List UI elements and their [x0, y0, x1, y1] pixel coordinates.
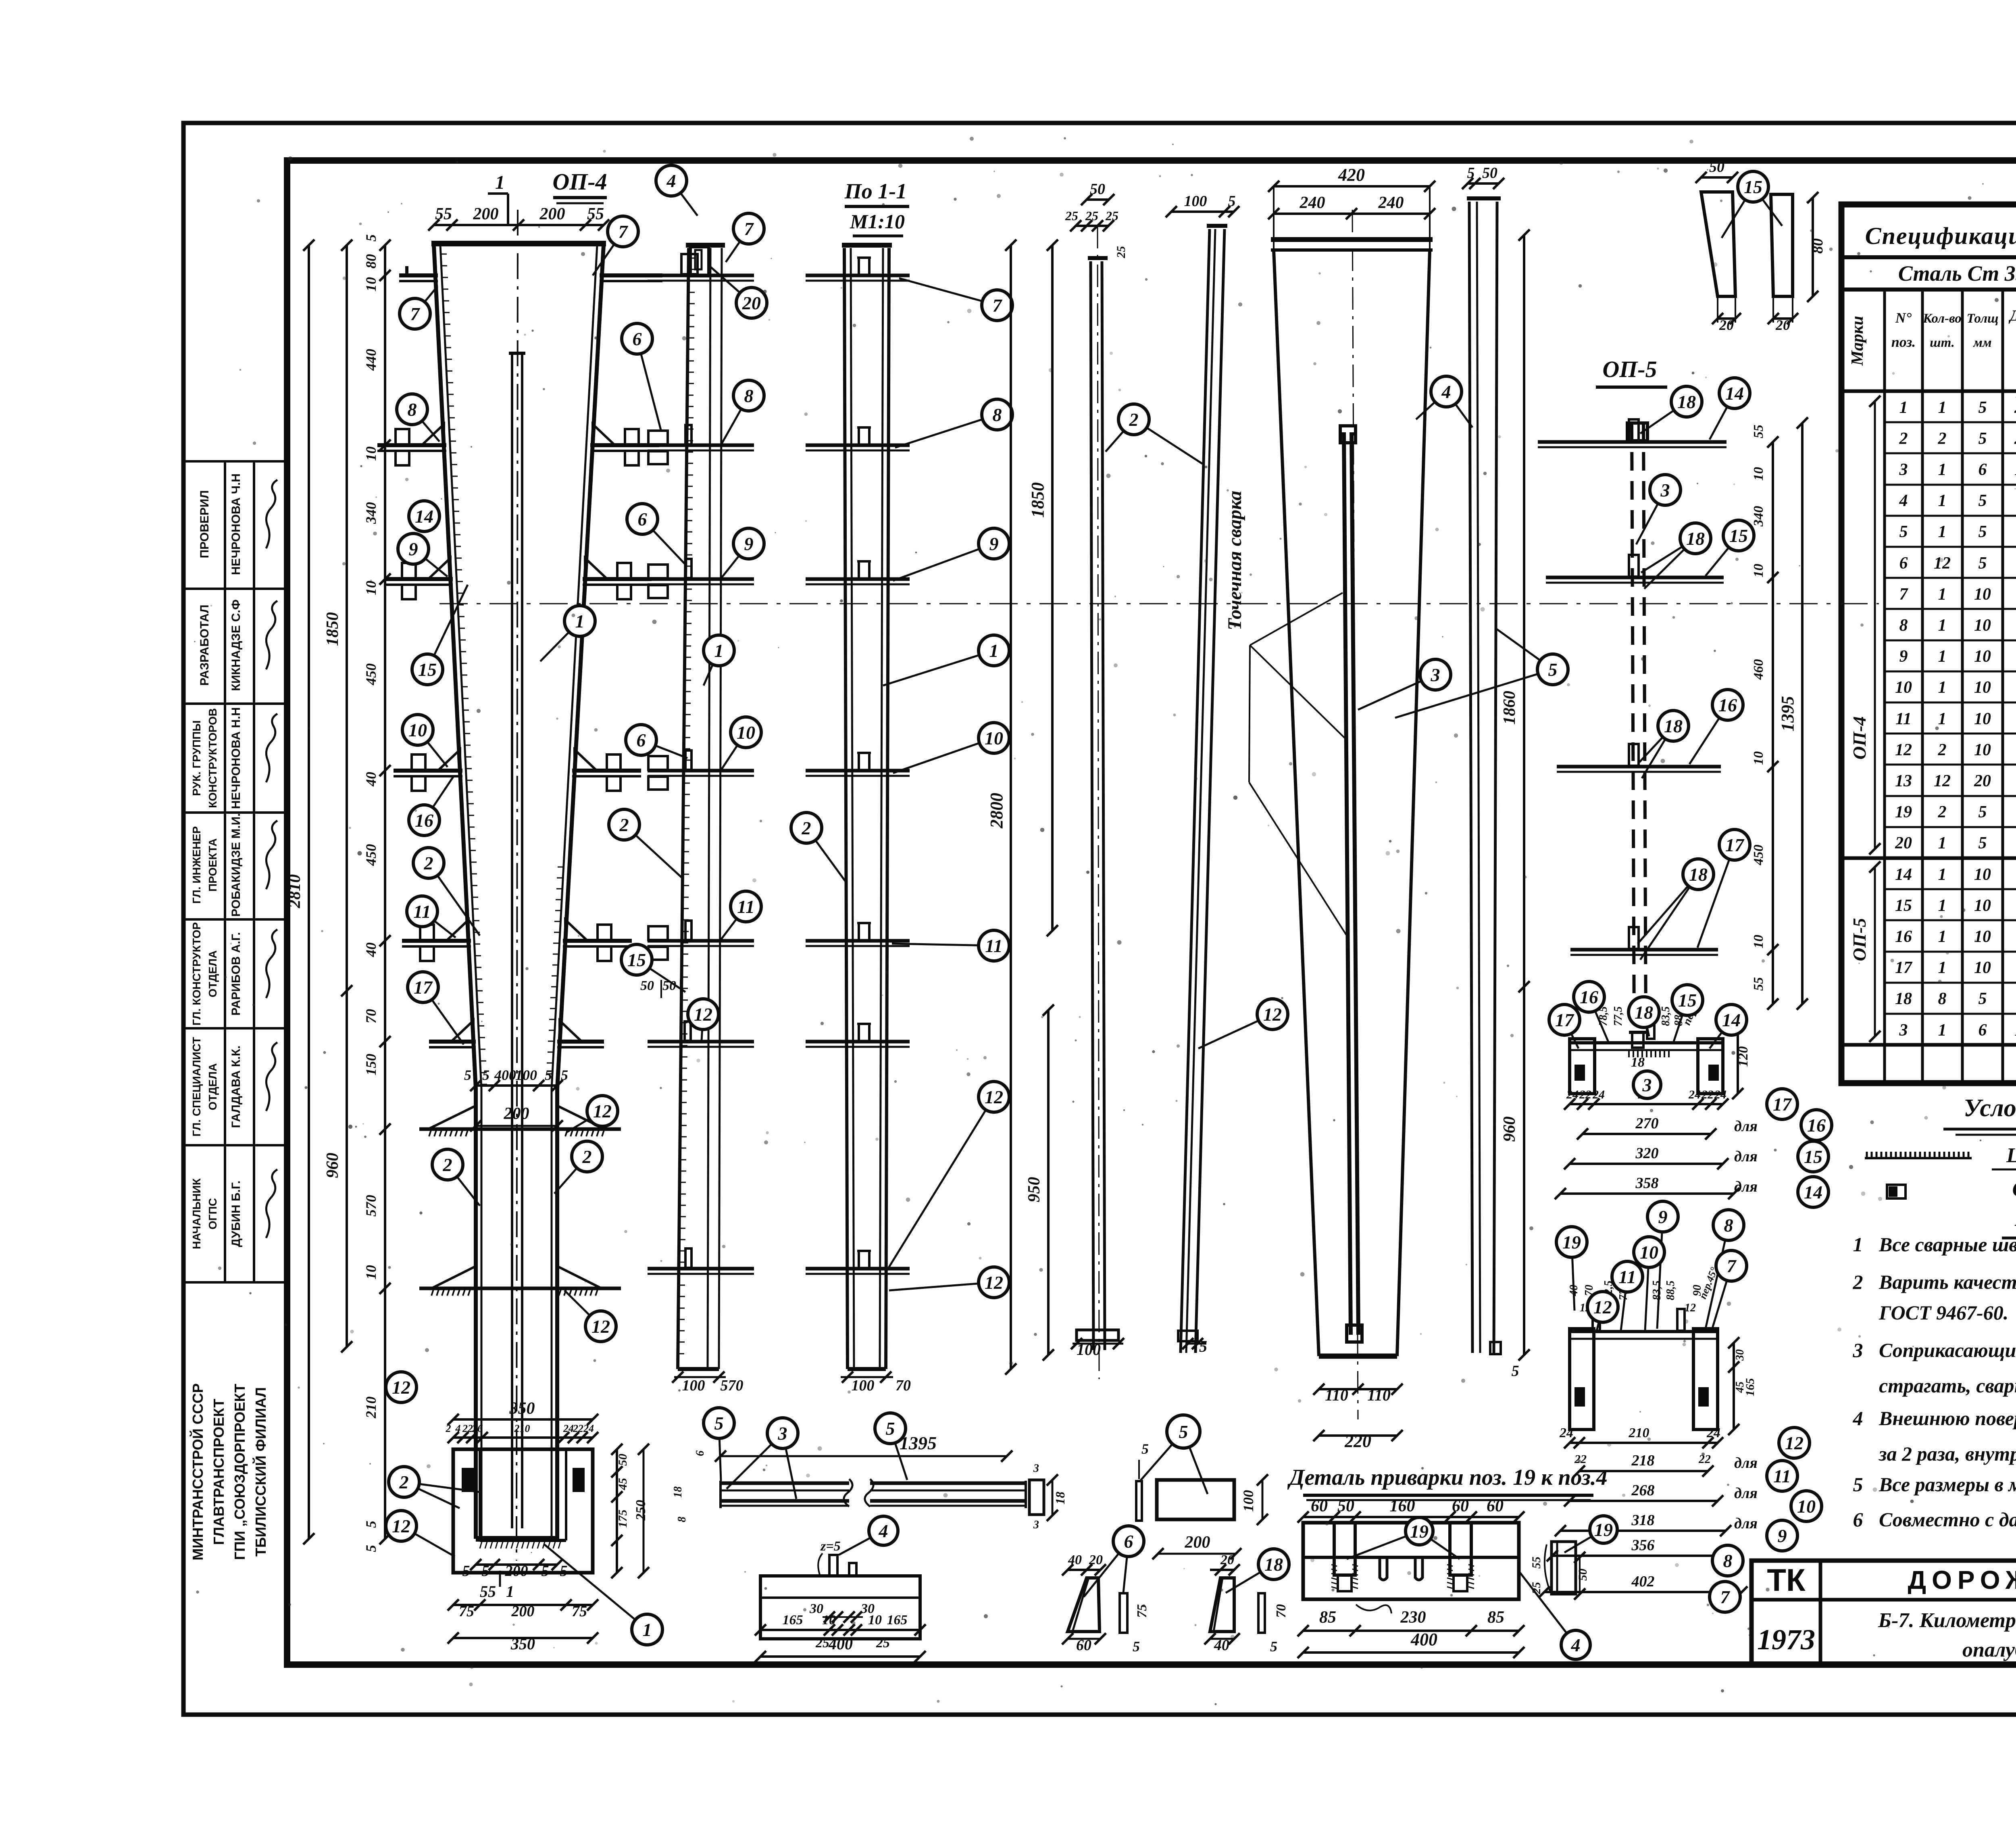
svg-text:15: 15 — [418, 659, 437, 680]
legend hole symbol — [1887, 1185, 1906, 1198]
svg-text:По 1-1: По 1-1 — [844, 179, 907, 203]
svg-text:55: 55 — [435, 205, 452, 223]
svg-text:ГЛ. СПЕЦИАЛИСТ: ГЛ. СПЕЦИАЛИСТ — [190, 1037, 203, 1137]
view C bar level 3 — [806, 577, 910, 581]
svg-text:10: 10 — [985, 728, 1003, 748]
svg-text:2: 2 — [446, 1423, 451, 1434]
node callout 18 — [1641, 523, 1711, 589]
svg-text:2821: 2821 — [2014, 398, 2016, 417]
view B bar level 15 — [648, 1040, 754, 1044]
view OP-5 dim 1395 — [1801, 423, 1804, 1004]
section S2 dim chains — [1570, 1442, 1718, 1444]
node callout 6 — [626, 725, 687, 758]
node callout 10 — [893, 723, 1009, 773]
svg-text:Кол-во: Кол-во — [1922, 311, 1962, 326]
spec table frame — [1841, 204, 2016, 1083]
node callout 4 — [839, 1516, 898, 1555]
svg-text:10: 10 — [1974, 647, 1991, 666]
svg-text:200: 200 — [504, 1105, 529, 1123]
svg-text:20: 20 — [1974, 772, 1991, 790]
svg-text:для: для — [1734, 1118, 1758, 1135]
svg-text:70: 70 — [896, 1377, 911, 1394]
node callout 14 — [1710, 378, 1750, 440]
svg-text:22: 22 — [462, 1423, 473, 1434]
svg-text:4: 4 — [879, 1521, 888, 1541]
svg-text:ОГПС: ОГПС — [206, 1198, 219, 1230]
svg-text:100: 100 — [682, 1377, 705, 1394]
weld detail bottom dims — [1303, 1630, 1519, 1632]
svg-text:120: 120 — [1736, 1046, 1751, 1067]
svg-text:358: 358 — [1635, 1175, 1659, 1192]
svg-text:Сталь Ст 3.: Сталь Ст 3. — [1898, 261, 2016, 286]
svg-text:10: 10 — [363, 581, 379, 595]
svg-text:960: 960 — [1500, 1117, 1519, 1142]
svg-text:165: 165 — [783, 1613, 803, 1628]
node callout 18 — [1639, 711, 1689, 778]
svg-text:поз.: поз. — [1891, 334, 1916, 350]
view F top dims — [1274, 185, 1430, 188]
svg-text:8: 8 — [1723, 1550, 1733, 1571]
svg-text:5: 5 — [545, 1067, 552, 1083]
svg-text:350: 350 — [510, 1635, 535, 1653]
svg-text:6: 6 — [637, 730, 646, 750]
bar end section plate 18x3 — [1029, 1480, 1044, 1515]
view C bar level 6 — [806, 1040, 910, 1044]
view B bar level 12 — [648, 1267, 754, 1271]
weld detail plate pos.19 right — [1450, 1523, 1471, 1575]
svg-text:60: 60 — [1311, 1497, 1328, 1515]
svg-text:22: 22 — [1701, 1088, 1714, 1101]
svg-text:6: 6 — [1899, 554, 1908, 573]
svg-text:Толщ: Толщ — [1966, 311, 1998, 326]
svg-text:5: 5 — [1979, 429, 1987, 448]
weld detail plate pos.19 left — [1334, 1523, 1355, 1575]
svg-text:11: 11 — [737, 896, 754, 917]
svg-text:15: 15 — [627, 950, 646, 970]
svg-text:18: 18 — [1053, 1492, 1067, 1505]
node callout 16 — [409, 776, 454, 836]
svg-text:9: 9 — [409, 539, 418, 559]
svg-text:12: 12 — [1685, 1302, 1696, 1314]
svg-text:10: 10 — [1751, 564, 1766, 577]
svg-text:КИКНАДЗЕ С.Ф: КИКНАДЗЕ С.Ф — [229, 599, 243, 691]
svg-text:450: 450 — [363, 844, 379, 866]
svg-text:18: 18 — [1689, 864, 1708, 885]
spec table title — [1841, 255, 2016, 259]
svg-text:420: 420 — [1338, 165, 1365, 185]
svg-text:165: 165 — [887, 1613, 908, 1628]
svg-text:200: 200 — [473, 205, 499, 223]
detail thin plate 5 — [1136, 1481, 1142, 1521]
svg-text:85: 85 — [1319, 1608, 1336, 1627]
view C bar level 1 — [806, 274, 910, 277]
svg-text:26: 26 — [472, 1423, 483, 1434]
svg-text:ОП-5: ОП-5 — [1602, 356, 1657, 382]
svg-text:20: 20 — [742, 293, 761, 313]
svg-text:ГАЛДАВА К.К.: ГАЛДАВА К.К. — [229, 1046, 243, 1128]
svg-text:18: 18 — [1264, 1554, 1283, 1575]
svg-text:для: для — [1734, 1148, 1758, 1165]
svg-text:3: 3 — [1899, 1021, 1908, 1040]
view B top cap pos.4 — [690, 247, 709, 276]
svg-text:77,5: 77,5 — [1612, 1007, 1624, 1026]
svg-text:5: 5 — [1979, 803, 1987, 821]
svg-text:шт.: шт. — [1930, 336, 1955, 350]
svg-text:8: 8 — [1724, 1215, 1733, 1236]
view B weld serration — [689, 258, 695, 259]
svg-text:14: 14 — [1722, 1010, 1741, 1030]
svg-text:1: 1 — [1938, 834, 1947, 852]
svg-text:1395: 1395 — [1778, 696, 1797, 731]
node callout 1 — [540, 606, 595, 661]
svg-text:12: 12 — [392, 1516, 410, 1536]
node callout 8 — [895, 399, 1012, 448]
spec table header grid — [1841, 390, 2016, 393]
svg-text:7: 7 — [1727, 1256, 1737, 1276]
svg-text:5: 5 — [1899, 523, 1908, 541]
svg-text:110: 110 — [1325, 1386, 1348, 1404]
svg-text:10: 10 — [737, 722, 755, 743]
svg-text:страгать, сварные швы зачисти: страгать, сварные швы зачистить. — [1879, 1374, 2016, 1397]
node callout 6 — [1084, 1526, 1144, 1597]
node callout 12 — [564, 1290, 616, 1342]
svg-text:75: 75 — [1135, 1604, 1150, 1618]
svg-text:11: 11 — [413, 901, 431, 922]
svg-text:24: 24 — [583, 1423, 594, 1434]
node callout 14 — [1710, 1004, 1747, 1048]
horizontal centre axis line — [439, 603, 1879, 604]
svg-text:30: 30 — [809, 1601, 823, 1616]
svg-text:9: 9 — [1778, 1525, 1787, 1546]
svg-text:16: 16 — [1807, 1115, 1826, 1136]
node callout 16 — [1574, 982, 1609, 1043]
view OP-4 left dim chain — [384, 245, 386, 1539]
detail thin bar 75 — [1120, 1593, 1127, 1633]
svg-text:3: 3 — [1033, 1519, 1039, 1531]
svg-text:55: 55 — [480, 1582, 496, 1601]
view F centre rod pos.3 — [1344, 432, 1351, 1335]
dim 950 — [1047, 1010, 1050, 1355]
node callout 12 — [566, 1096, 618, 1132]
svg-text:12: 12 — [593, 1101, 612, 1121]
svg-text:17: 17 — [1895, 959, 1913, 977]
svg-text:5: 5 — [1141, 1441, 1149, 1457]
view G foot — [1490, 1342, 1501, 1354]
node callout 12 — [1587, 1292, 1618, 1331]
svg-text:N°: N° — [1895, 310, 1912, 326]
svg-text:7: 7 — [619, 221, 629, 242]
svg-text:1850: 1850 — [323, 612, 342, 646]
svg-text:5: 5 — [1548, 659, 1558, 680]
svg-text:14: 14 — [1804, 1182, 1822, 1202]
weld detail slots — [1380, 1557, 1387, 1580]
dim line 2800 — [1010, 245, 1012, 1369]
svg-text:200: 200 — [1185, 1533, 1210, 1552]
svg-text:17: 17 — [1555, 1010, 1574, 1030]
svg-text:5: 5 — [1979, 398, 1987, 417]
node callout 8 — [1706, 1210, 1744, 1329]
view OP-4 wing flange lower pos.12 — [419, 1287, 621, 1290]
svg-text:10: 10 — [1974, 927, 1991, 946]
svg-text:7: 7 — [993, 295, 1003, 316]
svg-text:268: 268 — [1631, 1482, 1655, 1499]
svg-text:1: 1 — [1938, 865, 1947, 884]
svg-text:19: 19 — [1410, 1521, 1429, 1542]
marks bracket OP-5 — [1874, 867, 1876, 1036]
view OP-4 wing flange upper pos.12 — [419, 1127, 621, 1131]
svg-text:400: 400 — [828, 1635, 853, 1653]
svg-text:25: 25 — [1114, 246, 1128, 258]
svg-text:Внешнюю поверхность опалубки: Внешнюю поверхность опалубки окрасить ку… — [1879, 1407, 2016, 1430]
svg-text:9: 9 — [744, 534, 754, 554]
view OP-4 bracket level 9 — [384, 577, 453, 581]
svg-text:25: 25 — [1065, 208, 1078, 223]
svg-text:12: 12 — [694, 1004, 712, 1025]
svg-text:1: 1 — [1938, 523, 1947, 541]
svg-text:20: 20 — [1775, 317, 1790, 333]
svg-text:19: 19 — [1895, 803, 1912, 821]
svg-text:210: 210 — [363, 1396, 379, 1419]
view OP-5 bars — [1538, 440, 1727, 444]
svg-text:17: 17 — [1773, 1094, 1792, 1115]
svg-text:83,5: 83,5 — [1660, 1007, 1672, 1026]
svg-text:24: 24 — [1592, 1088, 1605, 1101]
marks bracket OP-4 — [1874, 401, 1876, 849]
view OP-4 centre rod pos.20 — [511, 355, 513, 1528]
svg-text:5: 5 — [1512, 1363, 1519, 1380]
svg-text:318: 318 — [1631, 1512, 1655, 1529]
svg-text:6: 6 — [694, 1450, 706, 1456]
svg-text:10: 10 — [822, 1613, 836, 1628]
node callout 12 — [1198, 999, 1288, 1048]
svg-text:10: 10 — [408, 720, 427, 740]
svg-text:14: 14 — [1725, 383, 1744, 404]
svg-text:4: 4 — [1853, 1407, 1863, 1430]
svg-text:16: 16 — [1718, 695, 1737, 715]
svg-text:1: 1 — [1938, 1021, 1947, 1040]
svg-text:218: 218 — [1631, 1452, 1655, 1469]
node callout 8 — [1712, 1545, 1743, 1576]
svg-text:1: 1 — [1938, 585, 1947, 604]
node callout 3 — [1633, 1071, 1661, 1098]
view B bar level 7 — [648, 274, 754, 277]
svg-text:2: 2 — [1899, 429, 1908, 448]
svg-text:Совместно с данным см. лист №: Совместно с данным см. лист № 42 — [1879, 1508, 2016, 1531]
svg-text:5: 5 — [1979, 990, 1987, 1008]
svg-text:20: 20 — [1719, 317, 1734, 333]
node callout 7 — [593, 216, 638, 275]
svg-text:70: 70 — [363, 1009, 379, 1023]
svg-text:5: 5 — [1467, 165, 1475, 181]
svg-text:40: 40 — [363, 942, 379, 957]
svg-text:12: 12 — [985, 1087, 1003, 1107]
svg-text:3: 3 — [1033, 1462, 1039, 1475]
svg-text:340: 340 — [1751, 506, 1766, 527]
node callout 10 — [1634, 1237, 1664, 1331]
svg-text:12: 12 — [1895, 741, 1912, 759]
view B bar level 11 — [648, 939, 754, 943]
svg-text:Условные обозначения: Условные обозначения — [1964, 1094, 2016, 1122]
svg-text:20: 20 — [1220, 1553, 1234, 1567]
view D top dims — [1087, 198, 1109, 201]
svg-text:50: 50 — [640, 978, 654, 993]
svg-text:25: 25 — [1105, 208, 1118, 223]
svg-text:10: 10 — [1797, 1496, 1816, 1517]
spec table row lines — [1885, 421, 2016, 423]
view OP-4 top dimension 55 200 200 55 — [434, 224, 604, 226]
svg-text:для: для — [1734, 1515, 1758, 1532]
svg-text:14: 14 — [415, 506, 433, 527]
svg-text:18: 18 — [1677, 392, 1696, 412]
svg-text:1: 1 — [1938, 896, 1947, 915]
node callout 8 — [397, 394, 439, 442]
svg-text:250: 250 — [633, 1500, 648, 1521]
svg-text:М1:10: М1:10 — [850, 210, 905, 233]
svg-text:12: 12 — [1934, 772, 1951, 790]
node callout 19 — [1347, 1517, 1460, 1559]
svg-text:15: 15 — [1895, 896, 1912, 915]
svg-text:24: 24 — [563, 1423, 574, 1434]
svg-text:50: 50 — [616, 1454, 629, 1466]
svg-text:10: 10 — [1974, 959, 1991, 977]
svg-text:10: 10 — [1974, 678, 1991, 697]
svg-text:15: 15 — [1804, 1146, 1822, 1167]
svg-text:50: 50 — [1090, 181, 1105, 198]
svg-text:18: 18 — [672, 1486, 684, 1498]
node callout 16 — [1801, 1110, 1832, 1140]
node callout 11 — [892, 930, 1009, 961]
svg-text:45: 45 — [616, 1478, 629, 1490]
node callout 2 — [609, 809, 683, 879]
svg-text:10: 10 — [1640, 1242, 1658, 1263]
svg-text:22: 22 — [1574, 1453, 1587, 1466]
node callout 4 — [656, 165, 698, 216]
U-section bottom dims — [453, 1604, 593, 1606]
view C bar level 2 — [806, 444, 910, 447]
svg-text:1850: 1850 — [1028, 482, 1048, 518]
view B bar level 8 — [648, 444, 754, 447]
svg-text:5: 5 — [1853, 1473, 1863, 1496]
svg-text:25: 25 — [1530, 1582, 1543, 1594]
node callout 19 — [1564, 1516, 1617, 1553]
svg-text:12: 12 — [1785, 1433, 1804, 1453]
node callout 10 — [1791, 1491, 1822, 1521]
view OP-4 centre line — [516, 210, 518, 1561]
svg-text:РОБАКИДЗЕ М.И.: РОБАКИДЗЕ М.И. — [229, 813, 243, 917]
svg-text:22: 22 — [573, 1423, 583, 1434]
svg-text:11: 11 — [985, 936, 1002, 956]
svg-text:2810: 2810 — [285, 874, 304, 909]
view OP-4 bottom dimensions — [476, 1563, 557, 1566]
section S1 upper channel — [1570, 1041, 1723, 1044]
svg-text:55: 55 — [1751, 977, 1766, 991]
svg-text:2: 2 — [424, 853, 433, 873]
svg-text:5: 5 — [1179, 1421, 1188, 1442]
node callout 5 — [1140, 1415, 1208, 1494]
svg-text:5: 5 — [1270, 1638, 1277, 1655]
svg-text:175: 175 — [616, 1510, 629, 1528]
view C bar level 4 — [806, 769, 910, 773]
svg-text:10: 10 — [868, 1613, 882, 1628]
svg-text:5: 5 — [363, 234, 379, 242]
svg-text:5: 5 — [363, 1521, 379, 1528]
node callout 3 — [727, 1418, 798, 1499]
node callout 7 — [726, 213, 764, 262]
node callout 7 — [400, 286, 437, 329]
svg-text:2: 2 — [1129, 409, 1139, 430]
legend weld seam symbol — [1865, 1157, 1972, 1159]
svg-text:85: 85 — [1487, 1608, 1504, 1627]
view OP-4 dim 1850/960 line — [346, 245, 348, 1347]
node callout 16 — [1689, 690, 1743, 764]
detail thin bar 70 — [1258, 1593, 1265, 1633]
svg-text:НЕЧРОНОВА Ч.Н: НЕЧРОНОВА Ч.Н — [229, 473, 243, 575]
view OP-4 weld serration right edge — [558, 867, 564, 868]
svg-text:1: 1 — [714, 640, 724, 661]
svg-text:РУК. ГРУППЫ: РУК. ГРУППЫ — [190, 720, 203, 796]
svg-text:Отверстия: Отверстия — [2012, 1178, 2016, 1201]
node callout 18 — [1629, 997, 1659, 1036]
svg-text:30: 30 — [1734, 1349, 1746, 1361]
svg-text:70: 70 — [1274, 1604, 1289, 1618]
svg-text:200: 200 — [511, 1603, 535, 1620]
svg-text:25: 25 — [876, 1636, 890, 1651]
svg-text:12: 12 — [1263, 1004, 1282, 1025]
node callout 2 — [389, 1467, 480, 1508]
svg-text:6: 6 — [1853, 1508, 1863, 1531]
node callout 6 — [627, 504, 685, 565]
svg-text:210: 210 — [1629, 1425, 1649, 1440]
stamp table signatures — [266, 480, 277, 548]
svg-text:16: 16 — [1580, 987, 1598, 1007]
node callout 4 — [1520, 1573, 1590, 1659]
weld detail bar pos.4 — [1303, 1523, 1519, 1599]
svg-text:55: 55 — [1530, 1557, 1543, 1569]
svg-text:60: 60 — [1452, 1497, 1469, 1515]
svg-text:1: 1 — [495, 172, 505, 193]
svg-text:40: 40 — [363, 772, 379, 787]
svg-text:7: 7 — [1720, 1587, 1731, 1607]
view OP-5 post — [1632, 423, 1634, 1032]
svg-text:для: для — [1734, 1485, 1758, 1502]
svg-text:4: 4 — [666, 171, 676, 191]
svg-text:55: 55 — [1751, 425, 1766, 438]
node callout 7 — [899, 278, 1012, 321]
svg-text:6: 6 — [1124, 1531, 1133, 1552]
svg-text:1860: 1860 — [1500, 691, 1519, 725]
svg-text:9: 9 — [989, 534, 999, 554]
svg-text:ГОСТ 9467-60.: ГОСТ 9467-60. — [1879, 1301, 2008, 1324]
svg-text:10: 10 — [363, 1265, 379, 1280]
svg-text:Соприкасающиеся грани позици: Соприкасающиеся грани позиции тщательно … — [1879, 1339, 2016, 1361]
svg-text:1395: 1395 — [2014, 461, 2016, 479]
detail pos.15 trapezoid pair — [1701, 192, 1735, 296]
svg-text:50: 50 — [1337, 1497, 1354, 1515]
svg-text:13: 13 — [1895, 772, 1912, 790]
svg-text:60: 60 — [1487, 1497, 1504, 1515]
svg-text:270: 270 — [1635, 1115, 1659, 1132]
svg-text:950: 950 — [1025, 1177, 1043, 1202]
svg-text:1395: 1395 — [2014, 1021, 2016, 1040]
svg-text:2: 2 — [802, 818, 811, 838]
svg-text:80: 80 — [1809, 238, 1826, 254]
svg-text:5: 5 — [363, 1545, 379, 1552]
svg-text:570: 570 — [721, 1377, 744, 1394]
svg-text:2: 2 — [1853, 1271, 1863, 1293]
svg-text:100: 100 — [1184, 193, 1207, 210]
svg-text:88,5: 88,5 — [1664, 1281, 1677, 1300]
node callout 3 — [1636, 475, 1681, 544]
